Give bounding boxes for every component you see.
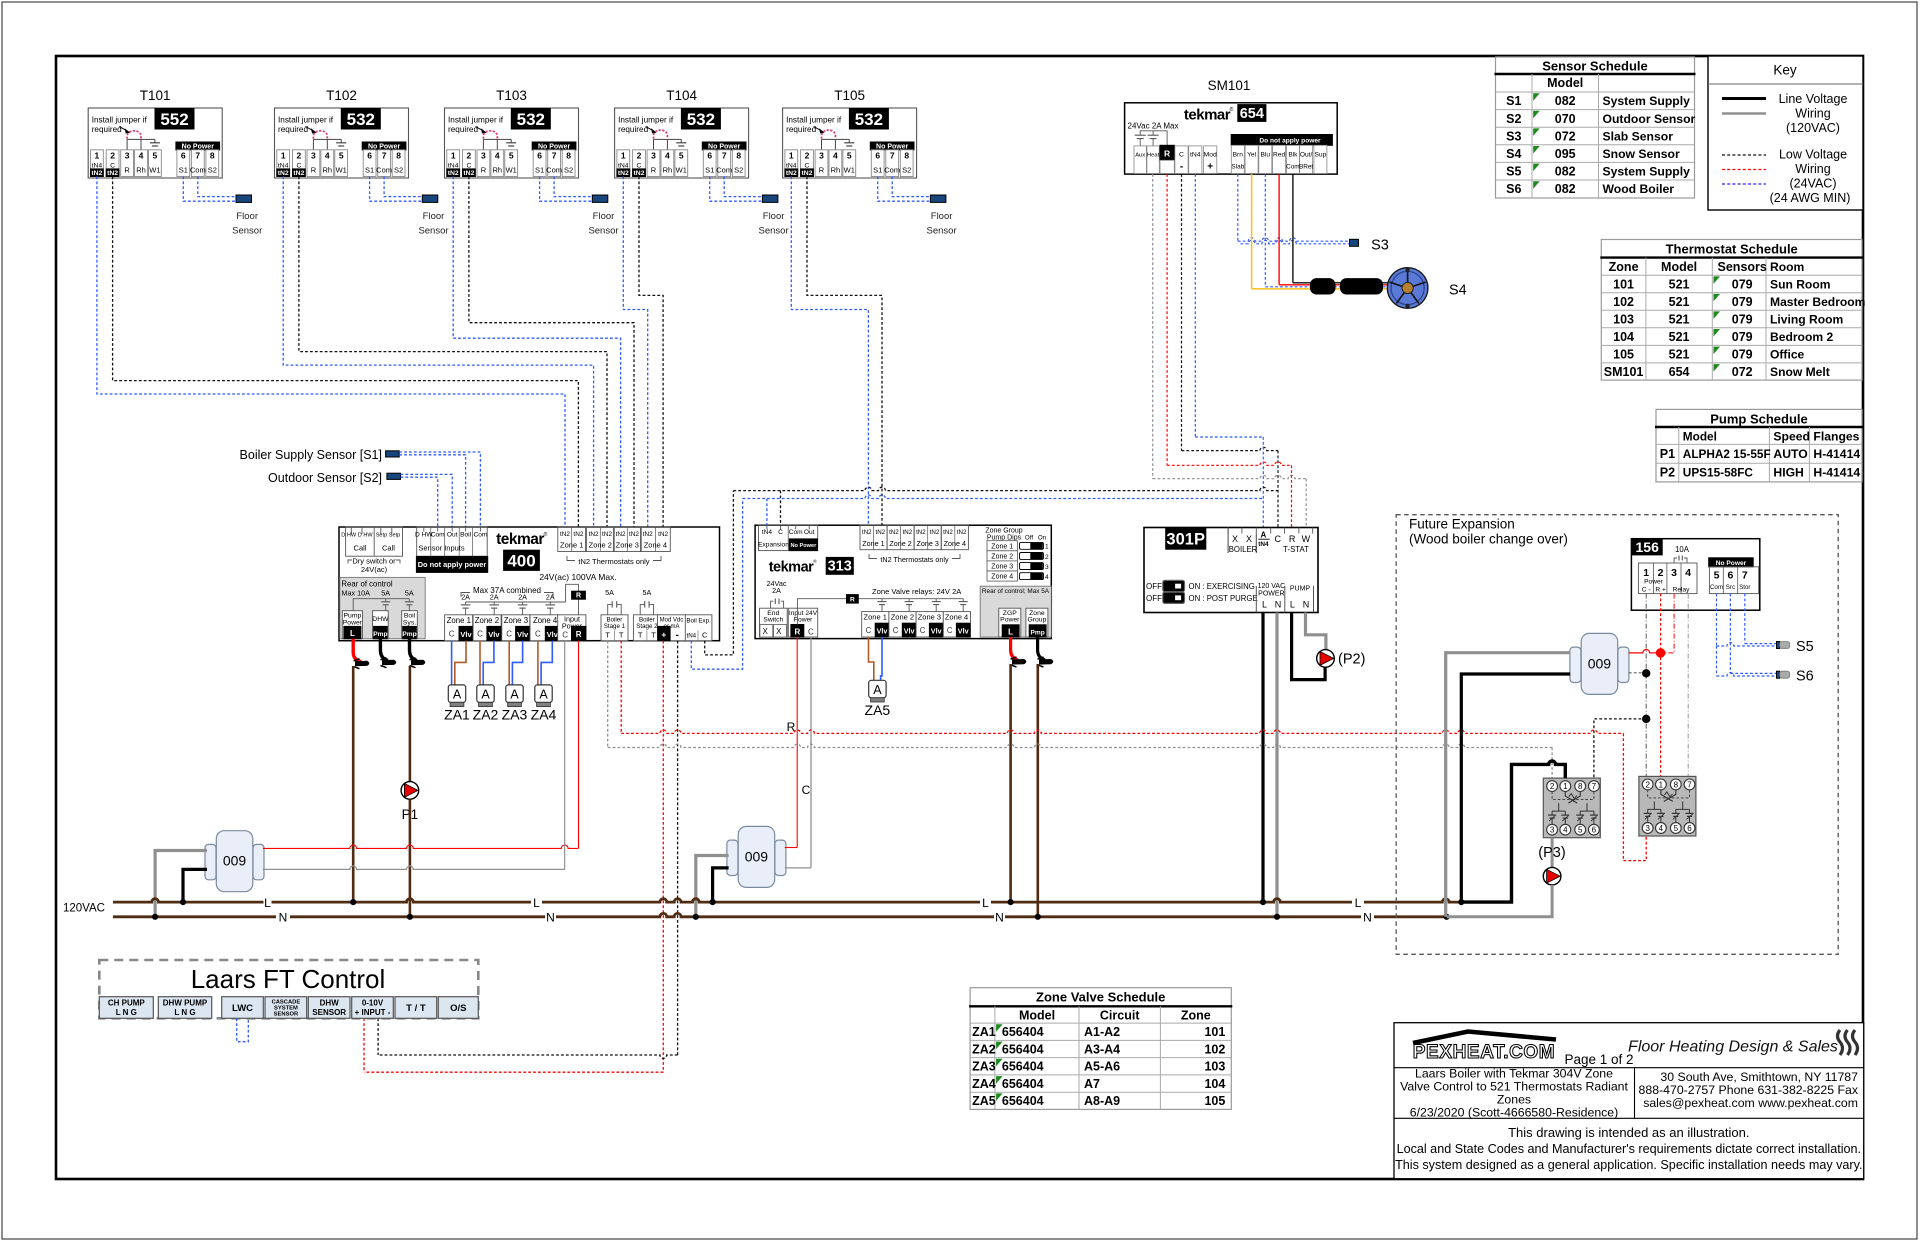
- svg-text:6: 6: [1727, 569, 1733, 581]
- svg-text:A7: A7: [1084, 1077, 1100, 1091]
- svg-text:tN2: tN2: [943, 529, 953, 536]
- pump P1: [401, 782, 419, 800]
- svg-text:Vlv: Vlv: [488, 630, 500, 639]
- thermostat T105 (tekmar 532): [783, 88, 917, 178]
- svg-text:Vlv: Vlv: [517, 630, 529, 639]
- svg-text:079: 079: [1732, 330, 1753, 344]
- svg-text:Valve Control to 521 Thermosta: Valve Control to 521 Thermostats Radiant: [1400, 1080, 1628, 1094]
- svg-text:R: R: [576, 593, 581, 600]
- junction dots on L bus: [180, 899, 186, 905]
- svg-text:4: 4: [139, 151, 144, 161]
- svg-text:Brn: Brn: [1233, 152, 1244, 159]
- wire thick black relay009-middle to L bus: [713, 868, 729, 902]
- svg-text:6: 6: [1687, 824, 1692, 833]
- svg-text:Red: Red: [1273, 152, 1285, 159]
- snow melt control SM101 (tekmar 654): [1125, 78, 1338, 174]
- svg-text:S1: S1: [705, 166, 714, 175]
- svg-text:S3: S3: [1506, 129, 1521, 143]
- svg-text:ALPHA2 15-55F: ALPHA2 15-55F: [1683, 447, 1771, 461]
- wire 301P 120VAC N (grey) to N bus: [1275, 613, 1278, 917]
- svg-text:Boiler Supply Sensor [S1]: Boiler Supply Sensor [S1]: [240, 448, 382, 462]
- wire T105 Com terminal to floor sensor: [892, 177, 930, 197]
- svg-text:ZA4: ZA4: [531, 706, 557, 722]
- svg-text:tN2: tN2: [957, 529, 967, 536]
- svg-text:8: 8: [904, 151, 909, 161]
- svg-text:R: R: [651, 166, 657, 175]
- svg-text:Rh: Rh: [493, 166, 503, 175]
- svg-text:082: 082: [1555, 165, 1576, 179]
- svg-text:656404: 656404: [1002, 1060, 1044, 1074]
- svg-text:Install jumper if: Install jumper if: [92, 116, 148, 125]
- wire 313 C to relay 009 (grey) with C label: [810, 637, 812, 868]
- svg-text:1: 1: [451, 151, 456, 161]
- svg-text:ZA2: ZA2: [473, 706, 499, 722]
- svg-text:521: 521: [1669, 348, 1690, 362]
- svg-text:656404: 656404: [1002, 1042, 1044, 1056]
- svg-text:S6: S6: [1796, 669, 1814, 685]
- wire T103 Com terminal to floor sensor: [554, 177, 592, 197]
- svg-text:tN4: tN4: [762, 529, 773, 536]
- wire 400 Pump Power L (red) to strain relief: [353, 639, 361, 662]
- svg-text:X: X: [763, 627, 769, 636]
- Laars FT Control dashed enclosure: [99, 960, 478, 1018]
- svg-text:4: 4: [1659, 824, 1664, 833]
- svg-text:Zone 3: Zone 3: [918, 612, 941, 621]
- svg-text:tN2: tN2: [643, 531, 653, 538]
- svg-text:Install jumper if: Install jumper if: [278, 116, 334, 125]
- svg-text:A8-A9: A8-A9: [1084, 1094, 1120, 1108]
- svg-text:3: 3: [311, 151, 316, 161]
- svg-text:R +: R +: [1655, 586, 1666, 593]
- svg-text:S6: S6: [1506, 182, 1521, 196]
- svg-text:Zone 3: Zone 3: [917, 539, 939, 548]
- svg-text:Floor: Floor: [236, 211, 258, 222]
- svg-text:required: required: [92, 125, 122, 134]
- thermostat T104 (tekmar 532): [615, 88, 749, 178]
- svg-text:S2: S2: [564, 166, 573, 175]
- svg-text:1: 1: [621, 151, 626, 161]
- svg-text:8: 8: [566, 151, 571, 161]
- wire brown boiler system pump to P1: [409, 666, 412, 782]
- svg-text:4: 4: [1685, 567, 1691, 579]
- svg-text:W: W: [1302, 534, 1311, 544]
- svg-text:552: 552: [160, 110, 188, 129]
- svg-text:2: 2: [1045, 554, 1049, 561]
- svg-text:6: 6: [537, 151, 542, 161]
- sensor S1 block: [386, 451, 400, 457]
- svg-text:L: L: [1008, 628, 1013, 637]
- svg-text:tN2: tN2: [560, 531, 570, 538]
- svg-text:3: 3: [651, 151, 656, 161]
- svg-text:3: 3: [1550, 826, 1555, 835]
- svg-text:T: T: [619, 630, 624, 639]
- svg-text:tN2: tN2: [616, 531, 626, 538]
- svg-text:S1: S1: [1506, 94, 1521, 108]
- svg-text:Local and State Codes and Manu: Local and State Codes and Manufacturer's…: [1397, 1142, 1861, 1156]
- LWC jumper (blue dashed): [237, 1018, 249, 1041]
- heat waves icon: [1838, 1030, 1858, 1055]
- svg-text:4: 4: [325, 151, 330, 161]
- svg-text:Boil: Boil: [404, 613, 416, 620]
- svg-text:ON : POST PURGE: ON : POST PURGE: [1189, 594, 1258, 603]
- svg-text:7: 7: [1687, 780, 1692, 789]
- thermostat T103 (tekmar 532): [445, 88, 579, 178]
- svg-text:156: 156: [1636, 539, 1660, 555]
- svg-text:tN4: tN4: [1258, 541, 1269, 548]
- svg-text:A: A: [453, 687, 462, 701]
- svg-text:C: C: [802, 783, 811, 797]
- svg-text:+: +: [1207, 162, 1213, 173]
- svg-text:tN2: tN2: [618, 170, 629, 177]
- svg-text:Out: Out: [804, 529, 815, 536]
- svg-text:tN2: tN2: [634, 170, 645, 177]
- wire 400 ZA3 Vlv: [512, 641, 522, 685]
- svg-text:6: 6: [1592, 826, 1597, 835]
- wire 400 Boiler Stage1 T (red) to wood boiler relay socket: [620, 641, 622, 734]
- wire S2 to 400 sensor input Com: [401, 477, 438, 527]
- svg-text:Boil Exp.: Boil Exp.: [686, 618, 711, 625]
- svg-text:Floor: Floor: [931, 211, 953, 222]
- relay 009 (left, boiler pump interlock): [205, 844, 216, 879]
- svg-text:(Wood boiler change over): (Wood boiler change over): [1409, 532, 1568, 547]
- svg-text:Zone 2: Zone 2: [475, 616, 499, 625]
- svg-text:Stage 1: Stage 1: [604, 623, 626, 630]
- svg-text:R: R: [576, 630, 582, 639]
- svg-text:A: A: [1261, 531, 1267, 540]
- svg-text:Rh: Rh: [323, 166, 333, 175]
- svg-text:Pump: Pump: [344, 613, 362, 620]
- svg-text:R: R: [311, 166, 317, 175]
- wood boiler aquastat 156: [1631, 539, 1759, 611]
- wire T101 S1 terminal to floor sensor: [183, 177, 236, 202]
- svg-text:8: 8: [210, 151, 215, 161]
- wire 400 Boil Sys Pmp (black) to strain relief: [410, 639, 418, 661]
- svg-text:Office: Office: [1770, 348, 1805, 362]
- svg-text:5A: 5A: [643, 588, 652, 597]
- svg-text:A: A: [510, 687, 519, 701]
- svg-text:C: C: [477, 630, 483, 639]
- svg-text:BOILER: BOILER: [1229, 545, 1258, 554]
- svg-text:T: T: [651, 630, 656, 639]
- svg-text:L N G: L N G: [116, 1008, 137, 1017]
- wire thick black L feed to left socket pin 1: [1461, 761, 1565, 902]
- svg-text:120VAC: 120VAC: [63, 903, 105, 915]
- svg-text:AUTO: AUTO: [1773, 447, 1807, 461]
- svg-text:Zone Group: Zone Group: [985, 527, 1022, 534]
- svg-text:095: 095: [1555, 147, 1576, 161]
- svg-text:Mod Vdc: Mod Vdc: [660, 617, 684, 623]
- strain relief zone group pump: [1039, 659, 1053, 665]
- svg-text:Com: Com: [884, 166, 900, 175]
- svg-text:Zone 1: Zone 1: [991, 543, 1013, 550]
- svg-text:tN2: tN2: [903, 529, 913, 536]
- svg-text:656404: 656404: [1002, 1094, 1044, 1108]
- svg-text:Com: Com: [431, 532, 445, 539]
- svg-text:1: 1: [281, 151, 286, 161]
- junction dot red at 156 R+: [1656, 648, 1666, 658]
- svg-text:Floor: Floor: [593, 211, 615, 222]
- svg-text:tN2: tN2: [930, 529, 940, 536]
- svg-text:sales@pexheat.com www.pexheat.: sales@pexheat.com www.pexheat.com: [1643, 1096, 1858, 1110]
- wire 400 ZA2 C (brown): [479, 641, 481, 685]
- strain relief boiler system pump: [411, 660, 425, 666]
- svg-text:7: 7: [890, 151, 895, 161]
- svg-text:tN2: tN2: [463, 170, 474, 177]
- svg-text:104: 104: [1204, 1077, 1225, 1091]
- svg-text:S4: S4: [1449, 283, 1467, 299]
- svg-text:24V(ac) 100VA Max.: 24V(ac) 100VA Max.: [539, 572, 616, 582]
- svg-text:+ INPUT -: + INPUT -: [355, 1008, 391, 1017]
- Pump Schedule table: [1655, 409, 1863, 482]
- svg-text:Line Voltage: Line Voltage: [1779, 92, 1848, 106]
- wire T103 terminal 2 (tN2) to zone control: [469, 177, 634, 528]
- svg-text:Src: Src: [1726, 584, 1735, 591]
- svg-text:PEXHEAT.COM: PEXHEAT.COM: [1413, 1042, 1555, 1063]
- wire 400 ZA1 Vlv: [455, 641, 466, 685]
- svg-text:120 VAC: 120 VAC: [1258, 583, 1286, 590]
- wire 313 Zone Group Pmp (black) to strain relief: [1038, 637, 1045, 660]
- label Laars FT Control: [150, 963, 430, 995]
- svg-text:Sensor: Sensor: [927, 226, 957, 237]
- svg-text:tN2: tN2: [589, 531, 599, 538]
- svg-text:5A: 5A: [605, 588, 614, 597]
- svg-text:No Power: No Power: [368, 143, 401, 150]
- svg-text:2A: 2A: [772, 586, 781, 595]
- wire 156 R+ (red) down to right relay socket pin 1: [1660, 594, 1662, 777]
- svg-text:UPS15-58FC: UPS15-58FC: [1683, 466, 1754, 480]
- wire 156 Stor to sensor S5: [1744, 594, 1746, 644]
- svg-text:Boil: Boil: [460, 532, 472, 539]
- svg-text:Pump Schedule: Pump Schedule: [1710, 411, 1808, 426]
- svg-text:Yel: Yel: [1247, 152, 1256, 159]
- wire thick grey relay009-left to N bus: [155, 851, 207, 917]
- svg-text:Switch: Switch: [763, 617, 783, 624]
- svg-text:C: C: [535, 630, 541, 639]
- svg-text:Relay: Relay: [1673, 586, 1691, 593]
- floor sensor of T104: [762, 195, 778, 202]
- svg-text:3: 3: [481, 151, 486, 161]
- svg-text:X: X: [1232, 534, 1238, 544]
- svg-text:Zone 4: Zone 4: [945, 612, 968, 621]
- svg-text:Max 10A: Max 10A: [342, 588, 371, 597]
- svg-text:2: 2: [805, 151, 810, 161]
- strain relief DHW pump: [382, 660, 396, 666]
- svg-text:656404: 656404: [1002, 1025, 1044, 1039]
- svg-text:656404: 656404: [1002, 1077, 1044, 1091]
- svg-text:ZA1: ZA1: [972, 1025, 996, 1039]
- svg-text:8: 8: [396, 151, 401, 161]
- svg-text:POWER: POWER: [1258, 591, 1284, 598]
- svg-text:W1: W1: [676, 166, 687, 175]
- wire 313 Zone1 C to ZA5 (brown): [869, 637, 874, 680]
- svg-text:tN2: tN2: [448, 170, 459, 177]
- wire S1 to 400 sensor input Com: [399, 452, 480, 527]
- svg-text:5: 5: [679, 151, 684, 161]
- svg-text:tN2 Thermostats only: tN2 Thermostats only: [880, 555, 949, 564]
- svg-text:BRet: BRet: [1299, 164, 1313, 171]
- wire T103 terminal 1 (tN2) to zone control: [453, 177, 620, 528]
- svg-text:S1: S1: [873, 166, 882, 175]
- svg-text:Pmp: Pmp: [402, 631, 416, 638]
- wire 400 ZA4 C (brown): [537, 641, 539, 685]
- svg-text:Zone 1: Zone 1: [862, 539, 884, 548]
- svg-text:521: 521: [1669, 295, 1690, 309]
- svg-text:5: 5: [153, 151, 158, 161]
- svg-text:Flanges: Flanges: [1813, 430, 1859, 444]
- svg-text:L: L: [982, 896, 989, 910]
- wire T103 S1 terminal to floor sensor: [540, 177, 593, 202]
- svg-text:2A: 2A: [490, 592, 499, 601]
- svg-text:Zone 2: Zone 2: [889, 539, 911, 548]
- floor sensor of T101: [236, 195, 252, 202]
- svg-text:4: 4: [665, 151, 670, 161]
- svg-text:Com: Com: [1286, 164, 1300, 171]
- wire 301P PUMP N (grey) to pump P2: [1306, 613, 1326, 650]
- floor sensor of T103: [592, 195, 608, 202]
- svg-text:6: 6: [707, 151, 712, 161]
- svg-text:3: 3: [1045, 564, 1049, 571]
- svg-text:5: 5: [1578, 826, 1583, 835]
- svg-text:105: 105: [1204, 1094, 1225, 1108]
- svg-text:ZA5: ZA5: [972, 1094, 996, 1108]
- svg-text:DHW PUMP: DHW PUMP: [163, 999, 208, 1008]
- svg-text:N: N: [995, 911, 1004, 925]
- wire 301P 120VAC L (black) to L bus: [1261, 613, 1264, 903]
- svg-text:888-470-2757 Phone 631-382-822: 888-470-2757 Phone 631-382-8225 Fax: [1639, 1083, 1859, 1097]
- wire 156 Src to sensor S6: [1729, 594, 1731, 674]
- svg-text:L: L: [1355, 896, 1362, 910]
- svg-text:Model: Model: [1683, 430, 1717, 444]
- svg-text:072: 072: [1555, 129, 1576, 143]
- svg-text:Rear of control: Rear of control: [341, 580, 392, 589]
- svg-text:0-10V: 0-10V: [362, 999, 384, 1008]
- svg-text:7: 7: [195, 151, 200, 161]
- wire 156 terminal 4 Relay (dash-dot) down to right relay socket pin 7: [1687, 594, 1689, 777]
- svg-text:P2: P2: [1660, 466, 1675, 480]
- svg-text:tN4: tN4: [1190, 152, 1201, 159]
- svg-text:S1: S1: [365, 166, 374, 175]
- svg-text:tN2: tN2: [629, 531, 639, 538]
- svg-text:5A: 5A: [405, 588, 414, 597]
- svg-text:tN2: tN2: [602, 531, 612, 538]
- svg-text:L: L: [1290, 600, 1295, 610]
- svg-text:532: 532: [687, 110, 715, 129]
- svg-text:654: 654: [1669, 365, 1690, 379]
- svg-text:T: T: [605, 630, 610, 639]
- svg-text:Max 37A combined: Max 37A combined: [473, 586, 541, 595]
- svg-text:A3-A4: A3-A4: [1084, 1042, 1120, 1056]
- svg-text:Stor: Stor: [1739, 584, 1750, 591]
- svg-text:tN2 Thermostats only: tN2 Thermostats only: [578, 557, 649, 566]
- svg-text:Do not apply power: Do not apply power: [418, 560, 487, 569]
- thermostat T101 (tekmar 552): [88, 88, 222, 178]
- svg-text:T: T: [638, 630, 643, 639]
- svg-text:Off: Off: [1025, 535, 1033, 542]
- svg-text:3: 3: [1671, 567, 1677, 579]
- svg-text:tN2: tN2: [802, 170, 813, 177]
- svg-text:532: 532: [347, 110, 375, 129]
- svg-text:C: C: [893, 626, 899, 635]
- wire grey pump P3 to N bus end: [1447, 885, 1553, 917]
- svg-text:R: R: [481, 166, 487, 175]
- svg-text:8: 8: [1674, 780, 1679, 789]
- floor sensor of T105: [930, 195, 946, 202]
- wire T105 terminal 2 (tN2) to zone control: [807, 177, 882, 526]
- svg-text:L N G: L N G: [174, 1008, 195, 1017]
- svg-text:Zone 4: Zone 4: [644, 541, 667, 550]
- svg-text:24V(ac): 24V(ac): [361, 565, 388, 574]
- svg-text:Zone 3: Zone 3: [616, 541, 639, 550]
- svg-text:4: 4: [1045, 574, 1049, 581]
- svg-text:tN2: tN2: [875, 529, 885, 536]
- svg-text:532: 532: [517, 110, 545, 129]
- strain relief pump power: [355, 661, 369, 667]
- sensor S5 connector: [1777, 642, 1780, 649]
- svg-text:Zone: Zone: [1181, 1008, 1211, 1022]
- pump P2: [1317, 650, 1335, 668]
- svg-text:Expansion: Expansion: [758, 541, 789, 548]
- svg-text:S2: S2: [902, 166, 911, 175]
- svg-text:Zone 3: Zone 3: [504, 616, 528, 625]
- svg-text:Group: Group: [1027, 617, 1046, 624]
- svg-text:2A: 2A: [546, 592, 555, 601]
- svg-text:A: A: [481, 687, 490, 701]
- svg-text:Sensor Inputs: Sensor Inputs: [418, 543, 465, 552]
- svg-text:®: ®: [1230, 106, 1234, 113]
- svg-text:Model: Model: [1019, 1008, 1055, 1022]
- svg-text:6/23/2020 (Scott-4666580-Resid: 6/23/2020 (Scott-4666580-Residence): [1410, 1106, 1619, 1120]
- Future Expansion dashed enclosure: [1396, 515, 1838, 955]
- svg-text:L: L: [264, 896, 271, 910]
- svg-text:tN2: tN2: [91, 170, 102, 177]
- svg-text:009: 009: [223, 853, 247, 869]
- svg-text:L: L: [350, 629, 355, 638]
- svg-text:2: 2: [637, 151, 642, 161]
- svg-text:Bedroom 2: Bedroom 2: [1770, 330, 1833, 344]
- wire T102 Com terminal to floor sensor: [384, 177, 422, 197]
- svg-text:No Power: No Power: [790, 543, 817, 549]
- svg-text:L: L: [533, 896, 540, 910]
- svg-text:Thermostat Schedule: Thermostat Schedule: [1666, 242, 1798, 257]
- svg-text:Rh: Rh: [831, 166, 841, 175]
- svg-text:079: 079: [1732, 278, 1753, 292]
- svg-text:N: N: [546, 911, 555, 925]
- svg-text:SM101: SM101: [1208, 78, 1251, 93]
- relay socket (P3 wood boiler pump relay): [1543, 778, 1600, 838]
- wire 301P PUMP L (black) to pump P2: [1292, 613, 1326, 680]
- svg-text:SM101: SM101: [1604, 365, 1644, 379]
- wire 313 ZGP Power L (red) to strain relief: [1011, 637, 1018, 660]
- svg-text:HIGH: HIGH: [1773, 466, 1803, 480]
- svg-text:C: C: [866, 626, 872, 635]
- svg-text:Dry switch or: Dry switch or: [352, 556, 396, 565]
- svg-text:SENSOR: SENSOR: [312, 1008, 346, 1017]
- svg-text:3: 3: [1645, 824, 1650, 833]
- svg-text:4: 4: [833, 151, 838, 161]
- wire 156 C- (dash-dot) down to right relay socket pin 2: [1645, 594, 1647, 777]
- junction dot at 156 C- / socket pin7 branch: [1642, 715, 1650, 723]
- svg-text:Outdoor Sensor [S2]: Outdoor Sensor [S2]: [268, 471, 382, 485]
- svg-text:Rear of control; Max 5A: Rear of control; Max 5A: [982, 588, 1050, 595]
- svg-text:tN2: tN2: [862, 529, 872, 536]
- svg-text:Install jumper if: Install jumper if: [448, 116, 504, 125]
- svg-text:Slab: Slab: [1231, 164, 1244, 171]
- svg-text:X: X: [776, 627, 782, 636]
- svg-text:This system designed as a gene: This system designed as a general applic…: [1395, 1158, 1862, 1172]
- svg-text:5A: 5A: [381, 588, 390, 597]
- svg-text:Laars Boiler with Tekmar 304V: Laars Boiler with Tekmar 304V Zone: [1415, 1067, 1613, 1081]
- svg-text:Zone Valve Schedule: Zone Valve Schedule: [1036, 990, 1165, 1005]
